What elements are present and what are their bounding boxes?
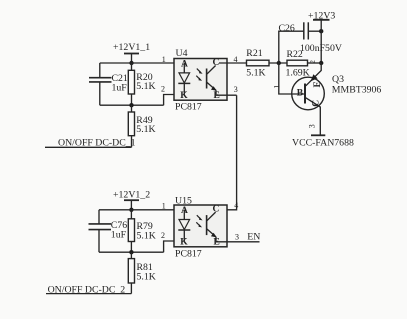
svg-text:PC817: PC817	[175, 248, 202, 259]
pin 3 label U15	[235, 233, 239, 242]
pin 2 label Q3 (rotated)	[309, 60, 317, 64]
pin 4 label U15	[234, 201, 238, 210]
wire bottom rail of lower circuit	[99, 251, 164, 253]
svg-text:PC817: PC817	[175, 102, 202, 113]
svg-text:3: 3	[235, 233, 239, 242]
wire base of Q3	[279, 63, 305, 94]
svg-text:E: E	[313, 81, 323, 87]
resistor R79	[130, 210, 132, 219]
svg-text:U4: U4	[176, 48, 188, 59]
svg-text:+12V1_2: +12V1_2	[113, 190, 150, 201]
wire top rail of lower circuit	[99, 209, 189, 211]
svg-text:2: 2	[161, 85, 165, 94]
wire net ON/OFF DC-DC_1	[45, 146, 132, 148]
svg-text:C: C	[213, 205, 220, 215]
U4 LED triangle	[179, 73, 190, 83]
capacitor C26	[303, 22, 305, 39]
svg-text:VCC-FAN7688: VCC-FAN7688	[292, 138, 354, 149]
node top-left junction	[129, 61, 133, 65]
svg-text:K: K	[180, 238, 188, 248]
wire R22 to rail	[308, 62, 322, 64]
svg-text:+12V1_1: +12V1_1	[113, 42, 150, 53]
U15 phototransistor	[206, 215, 208, 235]
U4 LED cathode bar	[178, 82, 190, 84]
power VCC-FAN7688	[311, 134, 325, 136]
svg-text:5.1K: 5.1K	[136, 124, 155, 135]
transistor Q3	[292, 77, 325, 110]
wire pin4 U4 to R21	[219, 62, 247, 64]
svg-text:1: 1	[162, 55, 166, 64]
svg-text:5.1K: 5.1K	[136, 81, 155, 92]
wire top rail of upper circuit	[100, 62, 189, 64]
svg-text:C: C	[312, 100, 322, 107]
svg-text:3: 3	[234, 85, 238, 94]
svg-text:2: 2	[161, 231, 165, 240]
svg-text:1: 1	[272, 85, 281, 89]
wire C26 left leg	[279, 31, 304, 63]
U4 LED anode pin A	[181, 60, 188, 70]
wire pin2 riser U15	[164, 241, 189, 252]
wire pin3 U15 to EN	[216, 241, 260, 243]
svg-text:1: 1	[162, 202, 166, 211]
resistor R21	[247, 60, 270, 66]
svg-text:ON/OFF DC-DC_2: ON/OFF DC-DC_2	[48, 284, 126, 295]
wire pin2 riser	[164, 95, 189, 106]
pin 2 label U4	[161, 85, 165, 94]
U4 light arrows	[197, 69, 200, 72]
wire R21 to junction to R22	[269, 62, 287, 64]
U15 LED	[181, 206, 188, 216]
svg-text:R21: R21	[246, 48, 262, 59]
power +12V3	[308, 10, 335, 21]
svg-text:R22: R22	[287, 49, 303, 60]
svg-text:3: 3	[307, 124, 316, 128]
node emitter rail junction	[319, 61, 323, 65]
svg-text:4: 4	[234, 201, 238, 210]
U15 light arrows	[197, 215, 200, 218]
pin 1 label U4	[162, 55, 166, 64]
wire stem +12V1_1	[131, 54, 133, 64]
wire C26 right leg	[308, 30, 321, 32]
node top junction lower circuit	[129, 208, 133, 212]
pin 3 label Q3 (rotated)	[307, 124, 316, 128]
wire net ON/OFF DC-DC_2	[46, 293, 131, 295]
wire pin3 U4 to long vertical	[216, 94, 237, 96]
svg-text:1uF: 1uF	[111, 229, 127, 240]
pin 3 label U4	[234, 85, 238, 94]
svg-text:C: C	[213, 58, 220, 68]
U4 phototransistor	[206, 69, 208, 89]
node EN net label	[247, 232, 260, 243]
resistor R22	[287, 60, 308, 66]
pin 1 label Q3 (rotated)	[272, 85, 281, 89]
wire emitter of Q3	[306, 63, 321, 86]
wire bottom rail of upper circuit	[100, 104, 164, 106]
resistor R81	[130, 252, 132, 258]
op-amp U4 optocoupler PC817 body	[174, 59, 227, 101]
pin 1 label U15	[162, 202, 166, 211]
svg-text:5.1K: 5.1K	[137, 272, 156, 283]
capacitor C76	[98, 210, 100, 224]
svg-text:2: 2	[309, 60, 317, 64]
op-amp U15 optocoupler PC817 body	[174, 205, 227, 247]
svg-text:ON/OFF DC-DC_1: ON/OFF DC-DC_1	[58, 137, 136, 148]
svg-text:B: B	[297, 89, 304, 99]
node bottom junction lower circuit	[129, 250, 133, 254]
svg-text:C26: C26	[279, 23, 295, 34]
svg-text:EN: EN	[247, 232, 260, 243]
power +12V1_2	[113, 190, 150, 201]
svg-text:MMBT3906: MMBT3906	[332, 84, 382, 95]
node bottom-left junction	[129, 103, 133, 107]
power +12V1_1	[113, 42, 150, 53]
pin 2 label U15	[161, 231, 165, 240]
node C26 rail junction	[319, 29, 323, 33]
node base junction	[277, 61, 281, 65]
pin 4 label U4	[234, 55, 238, 64]
svg-text:5.1K: 5.1K	[246, 68, 265, 79]
svg-text:5.1K: 5.1K	[137, 230, 156, 241]
svg-text:Q3: Q3	[332, 74, 344, 85]
capacitor C21	[99, 63, 101, 77]
wire long vertical U4 pin3 to U15 pin4	[219, 95, 237, 210]
resistor R49	[131, 105, 133, 112]
svg-text:K: K	[180, 91, 188, 101]
svg-text:1uF: 1uF	[112, 83, 128, 94]
svg-text:U15: U15	[175, 196, 192, 207]
resistor R20	[131, 63, 133, 70]
wire collector of Q3	[306, 98, 321, 135]
